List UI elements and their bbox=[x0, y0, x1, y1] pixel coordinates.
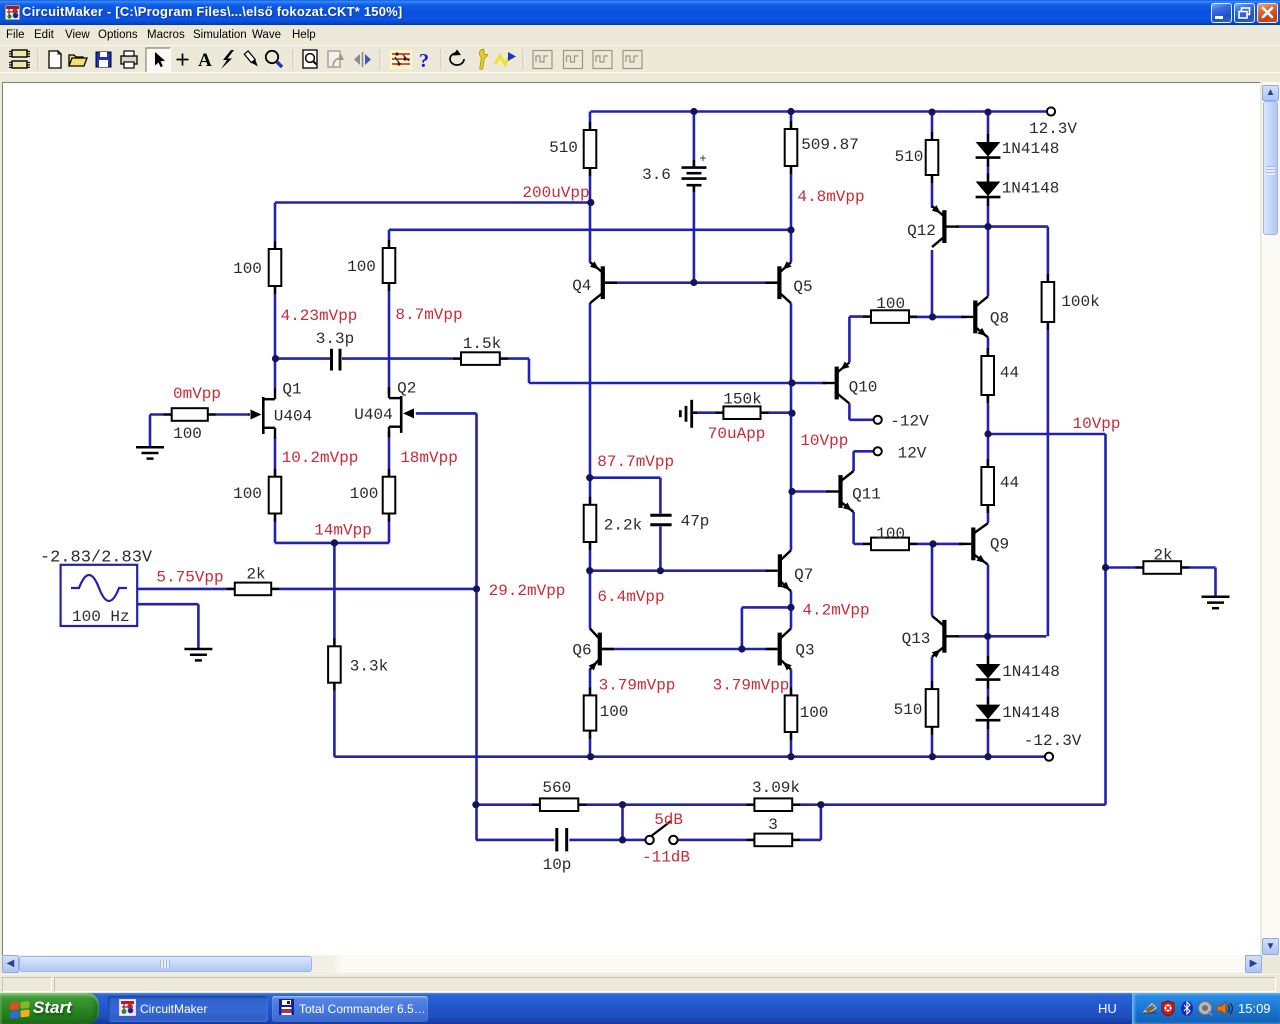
diode D1 1N4148 bbox=[976, 134, 1060, 167]
wire Q13 emitter to R510c bbox=[931, 657, 934, 689]
wire R2k to node 29.2mVpp bbox=[271, 588, 476, 591]
resistor 3.3k bbox=[328, 638, 341, 690]
wire R44a to 10Vpp node bbox=[987, 395, 990, 434]
svg-text:A: A bbox=[198, 50, 212, 71]
wire source to R2k bbox=[137, 588, 235, 591]
junction 4.2mVpp bbox=[787, 604, 794, 611]
junction 10Vpp bbox=[984, 430, 991, 437]
wire to 12V terminal bbox=[854, 450, 874, 453]
junction rail/R510c bbox=[929, 753, 936, 760]
wire Q1 gate to R100 bbox=[208, 413, 250, 416]
wire C3.3p to R1.5k bbox=[342, 357, 461, 360]
wire Q12 base row bbox=[956, 225, 1048, 228]
wire 10Vpp row bbox=[988, 433, 1106, 436]
wire Q2 drain row to Q5 emitter node bbox=[389, 229, 791, 232]
wire R150k to Q5 collector column bbox=[761, 411, 792, 414]
wire Q12 collector down bbox=[931, 250, 934, 317]
diode D3 1N4148 bbox=[976, 656, 1060, 689]
resistor 100 (Q11) bbox=[863, 538, 917, 551]
resistor 2.2k bbox=[584, 497, 597, 550]
wire to switch bbox=[623, 839, 646, 842]
resistor 100 (Q3 emitter) bbox=[785, 687, 798, 740]
transistor Q3 bbox=[766, 629, 792, 671]
junction 150k bbox=[788, 410, 795, 417]
resistor 1.5k bbox=[453, 352, 508, 365]
wire Q7 emitter to Q3 collector bbox=[790, 591, 793, 628]
wire battery - to base row bbox=[693, 186, 696, 282]
wire D3 to D4 bbox=[987, 680, 990, 704]
transistor Q9 bbox=[959, 523, 988, 564]
wire Q12 emitter to R510b bbox=[931, 175, 934, 208]
ground (source) bbox=[184, 649, 212, 660]
junction 2.2k/Q7 base row bbox=[586, 567, 593, 574]
wire C10p to node bbox=[569, 839, 622, 842]
resistor 3.09k bbox=[746, 798, 800, 811]
resistor 100 (Q1 drain load) bbox=[269, 241, 282, 294]
resistor 100 (Q6 emitter) bbox=[584, 687, 597, 738]
ground probe (150k, 70uApp) bbox=[680, 400, 697, 428]
wire to R2k output bbox=[1106, 566, 1144, 569]
battery V 3.6 bbox=[642, 152, 707, 192]
wire Q10 emitter up bbox=[848, 317, 851, 363]
wire R100 to rail bbox=[790, 732, 793, 757]
wire to R100 Q11 bbox=[854, 543, 871, 546]
wire R2.2k to Q6 collector bbox=[589, 542, 592, 629]
wire Q13 base node to D3 bbox=[987, 636, 990, 664]
wire Q2 source down bbox=[388, 432, 391, 477]
wire to C10p bbox=[476, 839, 554, 842]
junction diodes/Q12 base bbox=[984, 223, 991, 230]
resistor 3 bbox=[746, 834, 800, 847]
resistor 2k (output) bbox=[1135, 561, 1189, 574]
junction Q12 col/Q8 base bbox=[929, 313, 936, 320]
wire R100 to Q9 base bbox=[909, 543, 965, 546]
terminal -12.3V bbox=[1045, 753, 1053, 761]
wire rail to R510b bbox=[931, 112, 934, 140]
junction Q6/Q3 base bbox=[738, 645, 745, 652]
capacitor C 47p bbox=[650, 513, 709, 531]
wire Q5 collector column down to Q7 bbox=[790, 303, 793, 550]
wire 200uVpp row to R100 Q1 drain load bbox=[274, 203, 277, 250]
wire Q6 emitter to R100 bbox=[589, 669, 592, 696]
junction 10p/switch bbox=[619, 836, 626, 843]
wire R100 to ground bbox=[150, 413, 172, 416]
diode D4 1N4148 bbox=[976, 697, 1060, 730]
wire to Q8 collector bbox=[987, 227, 990, 297]
junction Q5 col/Q10 base bbox=[788, 379, 795, 386]
wire to -12V terminal bbox=[849, 418, 873, 421]
wire D4 to rail bbox=[987, 721, 990, 757]
wire R44b to Q9 collector bbox=[987, 505, 990, 523]
wire 87.7mVpp node to C47p bbox=[590, 476, 660, 479]
junction 3.09k/output bbox=[817, 801, 824, 808]
junction 560/3.09k bbox=[619, 801, 626, 808]
wire switch to R3 bbox=[678, 839, 755, 842]
wire Q4/Q5 base row bbox=[605, 281, 777, 284]
source V1 100Hz sine bbox=[61, 565, 138, 626]
junction 200uVpp bbox=[587, 199, 594, 206]
wire R509.87 to Q5 emitter bbox=[790, 166, 793, 262]
wire up to feedback row bbox=[820, 805, 823, 840]
junction Q13 col/Q9 base bbox=[929, 540, 936, 547]
diode D2 1N4148 bbox=[976, 174, 1060, 207]
wire Q2 gate node column down to feedback bbox=[475, 413, 478, 840]
resistor 100 (Q2 drain load) bbox=[383, 240, 396, 291]
resistor 509.87 (Q5 load) bbox=[785, 121, 798, 174]
wire 10Vpp node to R44b bbox=[987, 434, 990, 467]
wire R100 to rail bbox=[589, 731, 592, 757]
junction output/2k bbox=[1102, 564, 1109, 571]
transistor Q12 bbox=[932, 205, 959, 247]
terminal -12V bbox=[874, 416, 882, 424]
junction rail/R100 Q6 bbox=[587, 753, 594, 760]
wire rail to R510a bbox=[589, 112, 592, 131]
transistor Q8 bbox=[961, 296, 988, 337]
JFET Q1 U404 bbox=[249, 389, 276, 439]
resistor 100k bbox=[1042, 274, 1055, 330]
wire D2 to Q12 base node bbox=[987, 199, 990, 227]
wire R100 to Q2 drain bbox=[388, 283, 391, 395]
junction rail/R509.87 bbox=[787, 108, 794, 115]
wire feedback row bbox=[477, 803, 1106, 806]
wire -12.3V bottom rail bbox=[334, 755, 1044, 758]
wire Q1 source resistor to 14mVpp row bbox=[274, 514, 277, 543]
transistor Q10 bbox=[823, 362, 850, 404]
ground (Q1 gate) bbox=[136, 447, 164, 458]
wire down to R100k bbox=[1047, 227, 1050, 282]
resistor 44 (lower) bbox=[981, 459, 994, 513]
junction rail/diodes bbox=[984, 109, 991, 116]
wire R510a to Q4 emitter, node 200uVpp bbox=[589, 168, 592, 263]
junction Q2 drain row/Q5 emitter bbox=[787, 226, 794, 233]
junction Q4/Q5 bases bbox=[690, 279, 697, 286]
transistor Q5 bbox=[765, 261, 791, 303]
resistor 44 (upper) bbox=[981, 348, 994, 403]
resistor 510 (Q4 load) bbox=[584, 122, 597, 176]
switch SPST 5dB/-11dB bbox=[645, 821, 677, 844]
wire Q11 emitter down bbox=[852, 512, 855, 544]
resistor 2k (source) bbox=[227, 583, 279, 596]
transistor Q4 bbox=[590, 261, 617, 303]
capacitor C 10p bbox=[543, 828, 572, 874]
resistor 510 (Q13) bbox=[926, 681, 939, 735]
wire 14mVpp node to R3.3k bbox=[333, 543, 336, 646]
wire 200uVpp row bbox=[275, 201, 590, 204]
wire Q11 base row bbox=[792, 490, 828, 493]
wire R510c to rail bbox=[931, 727, 934, 757]
wire +12.3V top rail bbox=[591, 110, 1047, 113]
transistor Q13 bbox=[932, 616, 959, 658]
terminal +12.3V bbox=[1047, 107, 1055, 115]
wire feedback node down bbox=[621, 805, 624, 840]
transistor Q7 bbox=[766, 550, 791, 591]
wire down to ground bbox=[197, 604, 200, 649]
resistor 100 (Q1 gate) bbox=[164, 408, 216, 421]
wire C47p to Q7 base row bbox=[659, 527, 662, 571]
wire to R100 Q10 bbox=[849, 315, 871, 318]
wire Q11 collector up bbox=[852, 451, 855, 471]
junction Q11 base bbox=[788, 488, 795, 495]
wire R3 right bbox=[792, 839, 821, 842]
resistor 100 (Q10) bbox=[863, 310, 917, 323]
wire Q8 emitter to R44a bbox=[987, 337, 990, 356]
wire Q9 emitter down to Q13 base node bbox=[987, 564, 990, 636]
wire 14mVpp row bbox=[275, 542, 389, 545]
terminal 12V bbox=[874, 447, 882, 455]
junction 29.2mVpp node bbox=[473, 585, 480, 592]
wire Q3 emitter to R100 bbox=[790, 670, 793, 696]
wire Q13 collector up to Q9 base row bbox=[931, 544, 934, 616]
junction 14mVpp/3.3k bbox=[331, 539, 338, 546]
wire down to ground bbox=[1214, 568, 1217, 597]
junction Q9 emitter/Q13 base bbox=[984, 633, 991, 640]
wire Q6/Q3 base row bbox=[602, 648, 778, 651]
wire probe to R150k bbox=[694, 411, 723, 414]
wire Q2 gate right bbox=[416, 412, 477, 415]
wire source - to ground bbox=[137, 603, 198, 606]
wire base row up to 4.2mVpp node bbox=[741, 607, 744, 649]
transistor Q6 bbox=[589, 629, 614, 671]
capacitor C 3.3p bbox=[316, 330, 354, 371]
junction rail/R100 Q3 bbox=[787, 753, 794, 760]
wire rail to battery + bbox=[693, 112, 696, 167]
wire to Q10 base bbox=[529, 382, 826, 385]
resistor 100 (Q1 source) bbox=[269, 469, 282, 522]
junction 87.7mVpp bbox=[586, 474, 593, 481]
junction rail/R510b bbox=[928, 109, 935, 116]
wire Q13 base row bbox=[957, 635, 1046, 638]
wire R100 to Q8 base bbox=[909, 316, 965, 319]
wire Q4 collector down to R2.2k bbox=[589, 303, 592, 505]
ground (output 2k) bbox=[1202, 597, 1230, 608]
wire R100 to Q1 drain bbox=[274, 286, 277, 389]
JFET Q2 U404 bbox=[389, 387, 414, 437]
junction Q1 drain/C3.3p bbox=[272, 355, 279, 362]
wire Q7 base row bbox=[590, 569, 767, 572]
wire Q2 source resistor to 14mVpp row bbox=[388, 514, 391, 543]
wire Q1 source down bbox=[274, 438, 277, 477]
resistor 100 (Q2 source) bbox=[383, 469, 396, 522]
transistor Q11 bbox=[826, 471, 853, 512]
resistor 510 (Q12) bbox=[926, 132, 939, 183]
wire R2k to ground bbox=[1181, 566, 1215, 569]
wire R1.5k right bbox=[500, 357, 529, 360]
svg-text:?: ? bbox=[419, 50, 429, 72]
wire R3.3k to -12.3V rail bbox=[333, 683, 336, 757]
wire down to Q10 base row bbox=[528, 359, 531, 383]
junction feedback/gate column bbox=[472, 801, 479, 808]
wire down to C47p bbox=[659, 478, 662, 514]
wire Q10 collector down bbox=[848, 404, 851, 420]
junction C47p/Q7 base bbox=[657, 567, 664, 574]
wire to R100 Q2 drain load bbox=[388, 230, 391, 248]
junction rail/battery bbox=[690, 108, 697, 115]
junction rail/diodes bbox=[984, 753, 991, 760]
wire node A to C3.3p bbox=[275, 357, 330, 360]
wire rail to R509.87 bbox=[790, 112, 793, 130]
wire output column down bbox=[1104, 434, 1107, 805]
wire R100k down to Q13 base row bbox=[1047, 322, 1050, 636]
resistor 560 bbox=[532, 798, 586, 811]
wire to Q7 emitter column bbox=[742, 606, 791, 609]
resistor 150k bbox=[715, 406, 768, 419]
wire D1 to D2 bbox=[987, 158, 990, 181]
wire down to ground bbox=[149, 415, 152, 448]
wire rail to D1 bbox=[987, 112, 990, 143]
